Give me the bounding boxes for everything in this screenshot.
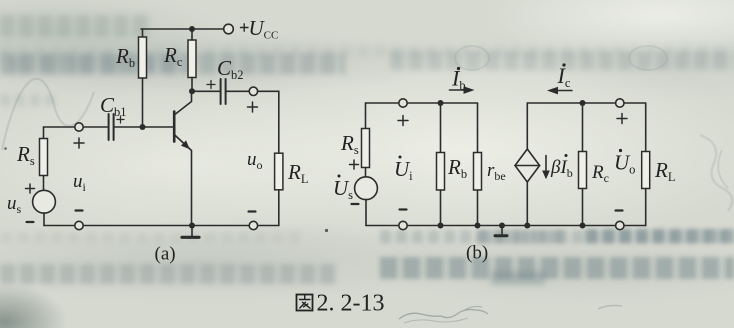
node: Rb bottom (438, 223, 444, 229)
node: Rc bottom (580, 223, 586, 229)
node: source bottom (524, 223, 530, 229)
ground (a) (182, 226, 199, 238)
bleed-through text rows (decorative) (0, 15, 152, 37)
svg-text:Rb: Rb (115, 44, 135, 70)
wire: Us to bottom rail (365, 200, 367, 226)
wire: bottom rail (b) (366, 225, 646, 227)
terminal: b output bottom (616, 221, 624, 229)
label Ic (557, 63, 571, 90)
polarity + of ui (74, 138, 84, 148)
svg-text:Rc: Rc (591, 162, 609, 185)
label Us (333, 175, 353, 203)
resistor RL (275, 153, 283, 225)
wire: bottom rail (a) (44, 225, 279, 227)
node: junction of Rb/Rc rail (189, 26, 195, 32)
source Us (355, 177, 378, 200)
terminal: input bottom (75, 221, 83, 229)
resistor Rb (b) (437, 103, 445, 226)
wire: top rail left section (366, 102, 478, 104)
polarity - of Uo (616, 209, 623, 211)
svg-text:rbe: rbe (487, 160, 506, 183)
svg-text:Us: Us (333, 176, 353, 202)
current arrow Ib (450, 87, 474, 93)
terminal: output coupling node (249, 87, 257, 95)
label Uo (614, 149, 635, 177)
polarity + of Cb2 (207, 81, 215, 89)
node: base junction (140, 124, 146, 130)
svg-text:(b): (b) (466, 243, 488, 264)
polarity + of Ui (398, 116, 408, 126)
resistor RL (b) (642, 103, 650, 226)
source us (33, 190, 56, 213)
svg-text:Ui: Ui (394, 157, 413, 183)
polarity - of ui (76, 209, 83, 211)
polarity - of Ui (400, 208, 407, 210)
resistor Rc (188, 29, 196, 91)
terminal +Ucc (224, 24, 234, 34)
terminal: b output top (616, 99, 624, 107)
wire: to RL top (258, 91, 279, 153)
polarity + of Cb1 (117, 116, 124, 123)
svg-text:βIb: βIb (550, 157, 573, 180)
label beta-Ib (550, 154, 573, 180)
svg-text:2. 2-13: 2. 2-13 (317, 291, 385, 317)
stray mark (4, 147, 7, 150)
capacitor Cb2 (192, 79, 249, 104)
svg-text:RL: RL (287, 160, 308, 186)
controlled source beta-Ib (515, 103, 540, 226)
polarity + of uo top (248, 102, 258, 112)
node: collector junction (189, 88, 195, 94)
svg-text:Rc: Rc (163, 43, 183, 69)
wire: top supply rail (141, 28, 224, 30)
node: Rc top (580, 100, 586, 106)
svg-text:us: us (7, 193, 22, 216)
svg-text:ui: ui (73, 171, 87, 194)
terminal: output bottom (249, 221, 257, 229)
polarity - of uo (249, 210, 256, 212)
svg-text:Cb1: Cb1 (100, 93, 127, 119)
svg-text:Rs: Rs (340, 131, 359, 157)
wire: top rail right section (527, 102, 645, 104)
stray mark 2 (325, 229, 328, 232)
svg-text:Rb: Rb (447, 155, 467, 181)
svg-text:Ic: Ic (557, 63, 571, 90)
svg-text:uo: uo (247, 149, 263, 172)
svg-text:RL: RL (654, 158, 675, 184)
resistor Rc (b) (579, 103, 587, 226)
polarity + of Us (350, 160, 359, 169)
label +Ucc (241, 24, 249, 31)
terminal: b input bottom (399, 221, 407, 229)
node: emitter junction (189, 223, 195, 229)
resistor Rs (b) (362, 129, 370, 177)
svg-text:UCC: UCC (249, 16, 279, 42)
current arrow Ic (549, 88, 573, 94)
node: rbe bottom (475, 223, 481, 229)
polarity - of Us (352, 203, 359, 205)
ground (b) (495, 226, 507, 236)
polarity + of us (26, 184, 35, 193)
svg-text:(a): (a) (155, 244, 176, 265)
wire: input top (44, 126, 75, 128)
label Ib (451, 66, 466, 93)
svg-text:Cb2: Cb2 (217, 56, 244, 82)
wire: left vertical (b) (365, 103, 367, 129)
terminal: input top (75, 123, 83, 131)
node: ground junction (b) (499, 223, 505, 229)
node: Rb top (438, 100, 444, 106)
transistor Q1 (174, 91, 191, 225)
capacitor Cb1 (83, 114, 173, 140)
resistor Rs (40, 127, 48, 190)
terminal: b input top (399, 99, 407, 107)
label Ui (394, 156, 413, 184)
arrow of beta-Ib (543, 156, 549, 179)
polarity - of us (27, 221, 34, 223)
resistor Rb (139, 29, 147, 127)
polarity + of Uo (617, 114, 627, 124)
wire: source to bottom rail (43, 213, 45, 225)
svg-text:Rs: Rs (16, 142, 35, 168)
resistor rbe (474, 103, 482, 226)
caption 图 2.2-13 (297, 295, 313, 311)
svg-text:Uo: Uo (614, 151, 635, 177)
